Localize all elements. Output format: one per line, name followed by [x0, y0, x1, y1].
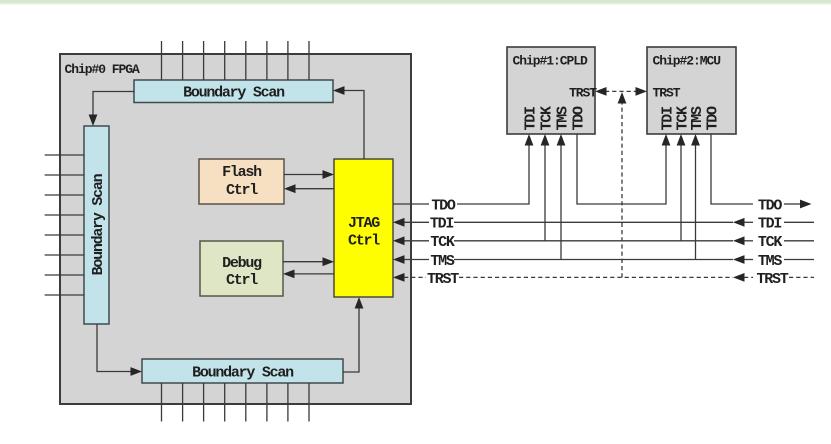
svg-text:Boundary Scan: Boundary Scan [192, 364, 294, 381]
svg-text:TCK: TCK [538, 106, 555, 131]
wire TCK label to mid arrow with risers [454, 141, 733, 241]
svg-text:TDO: TDO [570, 106, 587, 131]
wire TRST dashed riser to inter-chip net [621, 102, 623, 277]
block debug ctrl [200, 241, 283, 296]
block JTAG ctrl [334, 159, 393, 297]
wire MCU TDO down and right to TDO out label [711, 134, 753, 204]
wire TMS mid arrow to right label [744, 259, 753, 261]
wire TRST dashed label to mid arrow [459, 276, 733, 278]
svg-text:Ctrl: Ctrl [226, 272, 258, 289]
arrowhead right TRST into MCU [636, 87, 648, 96]
svg-text:TCK: TCK [430, 234, 455, 251]
block boundary-scan left [84, 126, 109, 324]
wire JTAG to flash ctrl [291, 188, 334, 190]
chip U1 Chip#1:CPLD body [507, 47, 595, 134]
wire TCK mid arrow to right label [744, 240, 753, 242]
svg-text:TDO: TDO [758, 197, 783, 214]
arrowhead left into JTAG TRST [393, 273, 405, 282]
arrowhead left into boundary-scan top right edge [333, 86, 345, 95]
top green banner [0, 0, 831, 3]
arrowhead up into MCU TDI [662, 134, 671, 146]
arrowhead up into CPLD TCK [541, 134, 550, 146]
arrowhead right into boundary-scan bottom [131, 367, 143, 376]
wire TMS label to mid arrow with risers [454, 141, 733, 260]
wire TRST dashed mid arrow to right label [744, 276, 753, 278]
wire TDO label to CPLD TDI riser [457, 141, 529, 204]
svg-text:Ctrl: Ctrl [226, 182, 258, 199]
wire TRST dashed right label to edge [789, 276, 814, 278]
svg-text:TRST: TRST [569, 85, 597, 100]
wire TDI label to mid arrow [454, 221, 733, 223]
svg-text:TMS: TMS [430, 253, 455, 270]
arrowhead right into JTAG from flash [323, 170, 335, 179]
arrowhead left TRST into CPLD [595, 87, 607, 96]
svg-text:Chip#0 FPGA: Chip#0 FPGA [65, 62, 141, 77]
svg-text:TCK: TCK [758, 234, 783, 251]
block flash ctrl [199, 159, 284, 204]
svg-text:TDI: TDI [430, 216, 454, 233]
svg-text:Ctrl: Ctrl [348, 233, 380, 250]
arrowhead left mid TCK [733, 236, 745, 245]
arrowhead up into JTAG bottom [355, 297, 364, 309]
svg-text:TDI: TDI [522, 107, 539, 131]
arrowhead right TDO output at right edge [800, 200, 812, 209]
wire TDI right label to edge [784, 221, 814, 223]
wire TCK right label to edge [784, 240, 814, 242]
arrowhead up TRST riser into inter-chip net [618, 92, 627, 104]
svg-text:Flash: Flash [222, 164, 262, 181]
arrowhead left mid TMS [733, 255, 745, 264]
chip U2 Chip#2:MCU body [647, 47, 736, 134]
arrowhead left into JTAG TMS [393, 255, 405, 264]
wire TDI mid arrow to right label [744, 221, 753, 223]
wires left stubs of boundary-scan left [45, 155, 84, 295]
svg-text:JTAG: JTAG [348, 215, 380, 232]
wire debug ctrl to JTAG [283, 261, 327, 263]
wires bottom stubs of boundary-scan bottom [162, 383, 310, 422]
block boundary-scan top [134, 80, 333, 103]
arrowhead up into MCU TCK [677, 134, 686, 146]
wire TDO out label to arrow [784, 203, 800, 205]
wire JTAG to debug ctrl [290, 273, 334, 275]
svg-text:TMS: TMS [758, 253, 783, 270]
svg-text:Boundary Scan: Boundary Scan [183, 85, 285, 102]
wires top stubs of boundary-scan top [162, 41, 310, 80]
arrowhead left into flash from JTAG [284, 184, 296, 193]
arrowhead up into MCU TMS [691, 134, 700, 146]
wire TMS right label to edge [784, 259, 814, 261]
wire boundary-scan bottom to JTAG ctrl [343, 304, 359, 372]
wire CPLD TDO down and right to MCU TDI riser [577, 134, 666, 204]
svg-text:TMS: TMS [689, 106, 706, 131]
block boundary-scan bottom [142, 359, 343, 383]
arrowhead down into boundary-scan left [89, 115, 98, 127]
svg-text:Chip#1:CPLD: Chip#1:CPLD [513, 54, 589, 69]
wire JTAG ctrl to boundary-scan top [340, 91, 364, 160]
svg-text:TRST: TRST [653, 85, 681, 100]
svg-text:TMS: TMS [554, 106, 571, 131]
wire flash ctrl to JTAG [284, 174, 327, 176]
svg-text:TRST: TRST [756, 271, 788, 288]
svg-text:Chip#2:MCU: Chip#2:MCU [653, 54, 721, 69]
arrowhead up into CPLD TMS [557, 134, 566, 146]
wire TMS from JTAG arrow to label [404, 259, 429, 261]
wire boundary-scan top to boundary-scan left [93, 92, 134, 120]
svg-text:TDO: TDO [704, 106, 721, 131]
arrowhead left into JTAG TDI [393, 218, 405, 227]
svg-text:Boundary Scan: Boundary Scan [90, 173, 107, 275]
wire TRST dashed from JTAG arrow to label [404, 276, 426, 278]
svg-text:TDO: TDO [431, 197, 456, 214]
arrowhead right into JTAG from debug [323, 257, 335, 266]
arrowhead left mid TRST [733, 273, 745, 282]
arrowhead left mid TDI [733, 218, 745, 227]
wire TDO from JTAG to label gap [393, 203, 429, 205]
svg-text:TDI: TDI [758, 216, 782, 233]
wire TCK from JTAG arrow to label [404, 240, 429, 242]
wire boundary-scan left to boundary-scan bottom [97, 324, 135, 372]
arrowhead left into JTAG TCK [393, 236, 405, 245]
chip U0 Chip#0 FPGA body [60, 54, 411, 404]
svg-text:Debug: Debug [222, 255, 262, 272]
wire TRST dashed between CPLD and MCU [605, 90, 637, 92]
svg-text:TRST: TRST [427, 271, 459, 288]
arrowhead left into debug from JTAG [283, 270, 295, 279]
wire TDI from JTAG arrow to label [404, 221, 429, 223]
arrowhead up into CPLD TDI [525, 134, 534, 146]
